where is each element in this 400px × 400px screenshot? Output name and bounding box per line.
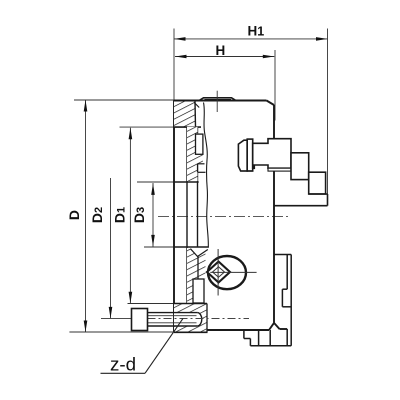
bolt hole through washer (white) xyxy=(174,313,202,326)
bore top edge xyxy=(174,181,199,183)
pinion ellipse xyxy=(208,256,246,289)
centerline main axis xyxy=(158,216,291,218)
top boss xyxy=(199,98,236,101)
jaw main block xyxy=(253,139,291,169)
bolt head xyxy=(132,309,148,331)
svg-text:D: D xyxy=(66,210,82,220)
washer block (bolt boss) hatched xyxy=(174,304,208,333)
svg-text:H: H xyxy=(216,43,226,58)
flange vertical lines xyxy=(187,127,198,304)
jaw base strip xyxy=(268,168,291,171)
pinion cross centerlines xyxy=(217,249,219,296)
vertical right of notch xyxy=(197,256,199,280)
upper hatch column xyxy=(187,127,203,181)
leader line xyxy=(145,318,183,373)
dimension D2 xyxy=(101,178,132,318)
body bottom right chamfers xyxy=(269,323,274,330)
step below hole xyxy=(198,164,206,173)
dimension D xyxy=(69,100,174,332)
dimension D1 xyxy=(120,127,175,303)
bolt centerline xyxy=(132,318,250,320)
ledge right of washer xyxy=(280,328,288,330)
inner diamond mark xyxy=(213,267,225,277)
pinion seat notch xyxy=(191,248,209,257)
bolt hole lower (white rect) xyxy=(193,279,204,303)
wavy break line xyxy=(204,103,209,247)
jaw tongue outer xyxy=(238,140,247,171)
pinion square socket (diamond) xyxy=(207,262,230,283)
bottom jaw outline xyxy=(244,255,291,346)
body right edge lower xyxy=(273,172,275,323)
svg-text:z-d: z-d xyxy=(110,353,136,374)
chuck body top edge xyxy=(174,101,287,333)
body right edge upper xyxy=(273,105,275,139)
bolt hole upper (white rect) xyxy=(196,134,203,154)
bolt shaft xyxy=(148,313,202,326)
bore bottom edge xyxy=(174,246,209,248)
flange top hatch block xyxy=(174,102,201,128)
jaw bottom line xyxy=(241,170,253,172)
dimension H1 xyxy=(174,29,328,195)
jaw ledge xyxy=(274,194,328,206)
lower hatch column xyxy=(187,248,208,304)
dimension D3 xyxy=(137,182,174,247)
jaw middle step block xyxy=(291,153,309,180)
boss centerline xyxy=(216,91,218,112)
svg-text:H1: H1 xyxy=(248,24,265,39)
jaw lower step block xyxy=(309,172,326,194)
body bottom edge xyxy=(208,329,270,331)
body left edge xyxy=(173,101,175,333)
jaw tongue inner xyxy=(247,139,253,171)
dimension H xyxy=(175,50,275,121)
